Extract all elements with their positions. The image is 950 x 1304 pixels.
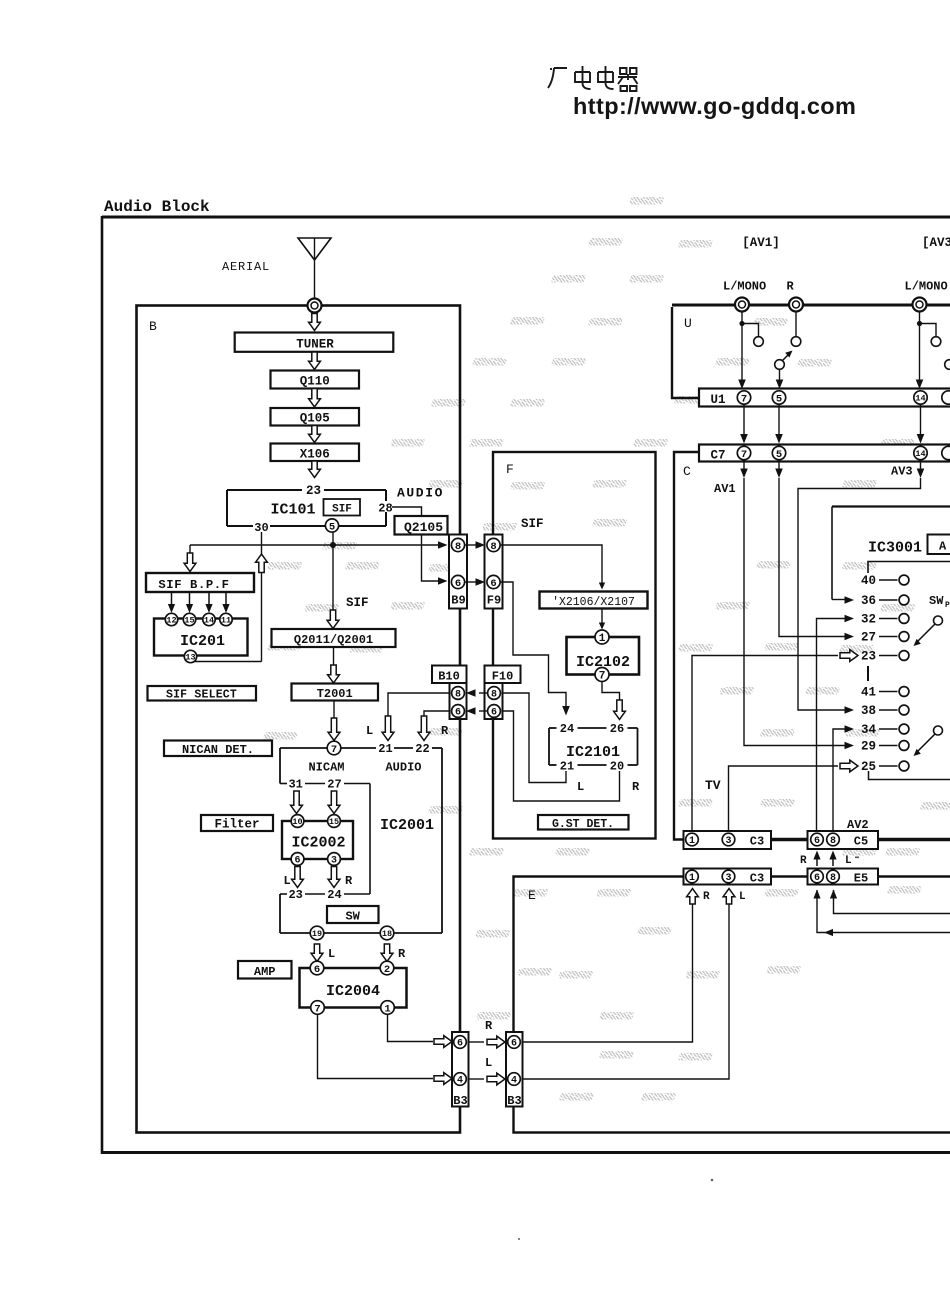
svg-text:1: 1: [599, 633, 606, 645]
svg-text:IC2101: IC2101: [566, 744, 620, 761]
svg-text:L: L: [739, 891, 746, 903]
arrows SIF BPF to IC201 pins: [171, 592, 173, 607]
connector F9: [485, 535, 503, 609]
pins 31 27 row: [280, 778, 370, 895]
svg-text:8: 8: [830, 873, 836, 884]
svg-text:C3: C3: [750, 835, 764, 849]
block A (cut): [928, 535, 950, 555]
arrow into T2001: [328, 665, 340, 683]
svg-text:7: 7: [314, 1003, 320, 1015]
svg-text:5: 5: [776, 393, 782, 405]
svg-text:C: C: [683, 464, 691, 479]
speck dot 1: [711, 1179, 714, 1182]
antenna AERIAL symbol: [298, 238, 331, 299]
wire U1 pin5 to C7 pin5: [778, 404, 780, 437]
wire below pin25: [869, 771, 950, 780]
svg-text:TUNER: TUNER: [296, 338, 334, 352]
arrow into SIF B.P.F: [184, 553, 196, 572]
svg-text:http://www.go-gddq.com: http://www.go-gddq.com: [573, 93, 856, 119]
svg-text:6: 6: [314, 964, 320, 976]
svg-text:L: L: [845, 855, 852, 867]
svg-text:Q2011/Q2001: Q2011/Q2001: [294, 633, 373, 647]
pin cut of C7: [942, 446, 950, 459]
svg-text:21: 21: [378, 742, 392, 756]
pin 3 of IC2002: [328, 853, 341, 867]
pin 15 of IC201: [183, 613, 195, 625]
connector E5: [808, 869, 879, 885]
speck near L: [855, 857, 859, 859]
wire IC2101 pin21 to F10 pin8: [501, 693, 566, 783]
IC IC2001 outline: [280, 748, 442, 933]
svg-text:B9: B9: [451, 594, 465, 608]
svg-text:AMP: AMP: [254, 965, 276, 979]
connector B3 (B side): [452, 1032, 469, 1107]
svg-text:4: 4: [457, 1076, 463, 1087]
svg-text:IC2004: IC2004: [326, 983, 380, 1000]
svg-text:23: 23: [288, 888, 302, 902]
svg-text:L/MONO: L/MONO: [723, 280, 766, 294]
svg-text:TV: TV: [705, 778, 721, 793]
block TUNER: [235, 333, 394, 352]
svg-text:8: 8: [490, 541, 496, 553]
svg-text:27: 27: [327, 778, 341, 792]
svg-text:8: 8: [830, 836, 836, 847]
svg-text:SW: SW: [929, 594, 944, 608]
jack AV1 L/MONO: [735, 298, 749, 312]
connector C3 (row1): [684, 831, 772, 849]
wire C5 pin6 to IC3001 pin32: [817, 619, 847, 834]
wire switch to U1 pin5: [779, 370, 781, 383]
svg-text:F: F: [506, 462, 514, 477]
IC IC101 outline: [227, 490, 386, 526]
hollow arrow into pin25: [840, 760, 858, 772]
pin 14 of C7: [914, 446, 927, 459]
IC IC2002 box: [282, 821, 353, 859]
svg-text:6: 6: [814, 836, 820, 847]
svg-text:21: 21: [560, 760, 574, 774]
svg-text:IC201: IC201: [180, 633, 225, 650]
block E boundary: [514, 877, 950, 1133]
svg-text:8: 8: [455, 690, 461, 701]
svg-text:B: B: [149, 319, 157, 334]
arrow up on pin30 wire: [256, 554, 268, 573]
svg-text:22: 22: [415, 742, 429, 756]
svg-text:8: 8: [491, 690, 497, 701]
svg-text:SIF: SIF: [332, 504, 352, 516]
speck dot 2: [518, 1238, 520, 1240]
wire F9 pin6 to IC2101 pin24: [500, 582, 566, 708]
wire AV3 to U1 pin14: [919, 312, 921, 383]
wire U1 pin7 to C7 pin7: [743, 404, 745, 437]
header Chinese text 广电电器 (stroke art): [548, 66, 638, 91]
svg-text:14: 14: [915, 394, 925, 404]
svg-text:6: 6: [814, 873, 820, 884]
arrow 27 to IC2002 pin 15: [328, 791, 340, 814]
svg-text:6: 6: [511, 1039, 517, 1050]
wire IC2102 pin7 to arrow: [602, 682, 620, 702]
svg-text:23: 23: [861, 650, 876, 664]
svg-text:U: U: [684, 316, 692, 331]
svg-text:Audio Block: Audio Block: [104, 198, 210, 216]
arrow IC2002 pin3 down: [328, 867, 340, 888]
svg-text:6: 6: [455, 578, 461, 590]
arrow F10 pin8 to B10 pin8: [479, 692, 488, 694]
pin 12 of IC201: [165, 613, 177, 625]
block SW: [327, 906, 379, 923]
wire U1 pin14 to C7 pin14: [920, 404, 922, 437]
block SIF inside IC101: [324, 499, 361, 516]
arrow B9 pin8 to F9 pin8: [465, 544, 478, 546]
block Q2011/Q2001: [272, 629, 396, 647]
wire B3 pin6 to C3 pin1: [523, 903, 693, 1042]
svg-text:27: 27: [861, 631, 876, 645]
pins 23 24 row: [280, 888, 370, 902]
block SIF SELECT: [148, 686, 257, 701]
svg-text:R: R: [398, 947, 406, 961]
wire T2001 down: [333, 701, 335, 720]
pin 6 of IC2004: [310, 961, 324, 976]
svg-text:U1: U1: [711, 393, 726, 407]
pin 2 of IC2004: [380, 961, 394, 976]
svg-text:AERIAL: AERIAL: [222, 260, 270, 274]
connector U1: [699, 389, 950, 407]
pin 5 of IC101: [325, 519, 338, 533]
svg-text:15: 15: [184, 616, 194, 626]
block Filter: [201, 815, 273, 831]
svg-text:R: R: [485, 1019, 493, 1033]
svg-text:13: 13: [185, 653, 195, 663]
wire Q2105 to B9 pin 6: [422, 535, 441, 582]
scan noise texture: [263, 197, 950, 1101]
outer border: [102, 216, 950, 1154]
svg-text:8: 8: [455, 541, 461, 553]
wire AV1-R jack stub: [795, 312, 797, 337]
wire E5 pin6 from right: [817, 890, 950, 933]
svg-text:11: 11: [221, 616, 231, 626]
arrow into pin36: [832, 599, 846, 601]
wire IC2101 pin20 to F10 pin6: [501, 711, 620, 801]
pin 7 of IC2004: [311, 1001, 325, 1016]
arrow into pin 21: [382, 716, 394, 741]
svg-text:1: 1: [689, 873, 695, 884]
svg-text:E: E: [528, 888, 536, 903]
arrow B3 to B3 pin4: [487, 1073, 505, 1085]
wire corner to SIF BPF arrow: [189, 545, 191, 556]
pin 15 of IC2002: [328, 815, 341, 828]
svg-text:7: 7: [331, 744, 337, 756]
svg-text:36: 36: [861, 594, 876, 608]
arrow B3 to B3 pin6: [487, 1036, 505, 1048]
switch SW1: [934, 616, 943, 625]
switch AV1: [775, 360, 785, 370]
svg-text:SW: SW: [345, 910, 360, 924]
pin 1 of IC2004: [381, 1001, 395, 1016]
svg-text:AV3: AV3: [891, 465, 913, 479]
pin 14 of U1: [914, 391, 927, 404]
wire IC101 pin28 to Q2105: [392, 507, 422, 515]
svg-text:C5: C5: [854, 835, 868, 849]
svg-text:R: R: [441, 724, 449, 738]
block Q2105: [395, 516, 448, 535]
svg-text:AUDIO: AUDIO: [397, 486, 444, 501]
svg-text:6: 6: [490, 578, 496, 590]
svg-text:29: 29: [861, 740, 876, 754]
svg-text:'X2106/X2107: 'X2106/X2107: [552, 596, 635, 609]
svg-text:AV2: AV2: [847, 818, 869, 832]
svg-text:4: 4: [511, 1076, 517, 1087]
svg-text:Q105: Q105: [300, 412, 330, 426]
wire C5 pin8 to IC3001 pin34: [833, 729, 846, 833]
svg-text:L: L: [485, 1056, 492, 1070]
svg-text:P: P: [945, 601, 950, 610]
svg-text:28: 28: [378, 502, 392, 516]
svg-text:AV1: AV1: [714, 482, 736, 496]
block T2001: [292, 684, 379, 701]
svg-text:6: 6: [491, 708, 497, 719]
svg-text:R: R: [632, 780, 640, 794]
wire IC201 pin13 loop: [190, 660, 262, 663]
pin 18 of IC2001: [380, 926, 394, 940]
pin 10 of IC2002: [291, 815, 304, 828]
arrow into pin 22: [418, 716, 430, 741]
jack AV3 L/MONO: [913, 298, 927, 312]
svg-text:IC3001: IC3001: [868, 540, 922, 557]
svg-text:L: L: [577, 780, 584, 794]
pin 7 of C7: [737, 446, 750, 460]
svg-text:31: 31: [288, 778, 302, 792]
wire B3 to B3 pin4 stub: [469, 1078, 484, 1080]
block X2106/X2107: [540, 592, 648, 609]
stub below pin23: [867, 666, 869, 681]
IC IC2101 outline: [549, 728, 638, 765]
hollow arrow into pin23: [840, 650, 858, 662]
svg-text:B3: B3: [507, 1094, 521, 1108]
svg-text:2: 2: [384, 964, 390, 976]
arrow pin18 to IC2004: [381, 944, 393, 962]
top bus line: [672, 304, 950, 307]
svg-text:AUDIO: AUDIO: [385, 761, 421, 775]
pin 6 of IC2002: [291, 853, 304, 867]
wire Q2011 to T2001: [333, 647, 335, 667]
svg-text:G.ST DET.: G.ST DET.: [552, 818, 614, 831]
wire AV1-L jack stub: [739, 321, 744, 326]
svg-text:L: L: [328, 947, 335, 961]
svg-text:15: 15: [329, 817, 339, 827]
arrow E5 pin8 to C5 pin8: [832, 858, 834, 866]
wire AV1-L to U1 pin7: [741, 312, 743, 383]
svg-text:34: 34: [861, 723, 877, 737]
svg-text:7: 7: [741, 449, 747, 461]
svg-text:T2001: T2001: [317, 687, 353, 701]
wire B10 pin6 to IC2001 pin22: [424, 711, 450, 717]
wire B3 to B3 pin6 stub: [469, 1041, 484, 1043]
pin 5 of U1: [772, 391, 785, 405]
arrow pin19 to IC2004: [311, 944, 323, 962]
svg-text:5: 5: [329, 521, 335, 533]
svg-text:R: R: [703, 891, 710, 903]
block Q105: [271, 408, 360, 426]
wire E5 pin8 from right: [834, 890, 950, 914]
arrow B9 pin6 to F9 pin6: [465, 581, 478, 583]
wire junction down to Q2011: [332, 545, 334, 612]
svg-text:R: R: [800, 855, 807, 867]
svg-text:6: 6: [455, 708, 461, 719]
svg-text:10: 10: [292, 817, 302, 827]
block SIF B.P.F: [146, 573, 254, 592]
wire IC2004 pin7 to B3 pin4: [318, 1014, 434, 1079]
pin 19 of IC2001: [310, 926, 324, 940]
svg-text:SIF: SIF: [346, 596, 369, 610]
svg-text:12: 12: [166, 616, 176, 626]
svg-text:6: 6: [294, 856, 300, 867]
svg-text:L: L: [284, 874, 291, 888]
svg-text:3: 3: [725, 873, 731, 884]
arrow 31 to IC2002 pin 10: [291, 791, 303, 814]
svg-text:20: 20: [610, 760, 624, 774]
block U boundary: [672, 307, 699, 398]
wire junction to B9 pin 8: [190, 544, 439, 546]
arrow Q110 to Q105: [309, 389, 321, 408]
arrow E5 pin6 to C5 pin6: [816, 858, 818, 866]
connector C7: [699, 445, 950, 462]
svg-text:3: 3: [725, 836, 731, 847]
arrow up into C3row2 pin1: [687, 889, 699, 905]
pin cut of U1: [942, 391, 950, 404]
svg-text:3: 3: [331, 856, 337, 867]
wire C7 pin7 to IC3001 pin29: [743, 460, 745, 471]
svg-text:26: 26: [610, 722, 624, 736]
IC IC3001 outline: [832, 505, 950, 507]
svg-text:E5: E5: [854, 872, 868, 886]
svg-text:L: L: [366, 724, 373, 738]
svg-text:38: 38: [861, 704, 876, 718]
arrow into Q2011: [327, 610, 339, 629]
arrow F10 pin6 to B10 pin6: [479, 710, 488, 712]
svg-text:[AV1]: [AV1]: [742, 236, 780, 250]
arrow into IC2001 pin 7: [328, 718, 340, 741]
wire C3 pin3 to IC3001 pin25: [729, 766, 839, 833]
svg-text:F9: F9: [487, 594, 501, 608]
pin 14 of IC201: [203, 613, 215, 625]
svg-text:SIF B.P.F: SIF B.P.F: [158, 578, 229, 592]
block NICAN DET.: [164, 741, 272, 757]
arrow into IC2101 pin 26: [614, 700, 626, 720]
block X106: [271, 444, 360, 462]
svg-text:IC101: IC101: [271, 502, 316, 519]
wire B10 pin8 to IC2001 pin21: [388, 693, 450, 717]
svg-text:SIF SELECT: SIF SELECT: [166, 689, 237, 702]
junction dot: [330, 542, 336, 548]
pin 13 of IC201: [184, 650, 196, 662]
svg-text:7: 7: [599, 670, 606, 682]
arrow TUNER to Q110: [309, 352, 321, 370]
svg-text:C3: C3: [750, 872, 764, 886]
wire C7 pin5 to IC3001 pin27: [778, 460, 780, 471]
svg-text:1: 1: [689, 836, 695, 847]
svg-text:L/MONO: L/MONO: [905, 280, 948, 294]
pin 7 of U1: [737, 391, 750, 405]
svg-text:IC2001: IC2001: [380, 817, 434, 834]
svg-text:41: 41: [861, 686, 876, 700]
switch AV3 (cut): [945, 360, 950, 370]
connector F10: [485, 666, 521, 720]
wire F9 pin8 to X2106: [500, 545, 602, 583]
IC IC2004 box: [300, 968, 407, 1008]
wire AV3 jack stub: [917, 321, 922, 326]
connector B10: [432, 666, 467, 720]
connector C5: [808, 831, 879, 849]
svg-text:Q2105: Q2105: [404, 520, 443, 535]
block C boundary: [674, 452, 699, 840]
svg-text:IC2002: IC2002: [291, 835, 345, 852]
IC IC2102 box: [567, 637, 640, 675]
arrow X106 to IC101 pin 23: [309, 461, 321, 478]
wire IC101 pin5 down to junction: [332, 532, 334, 545]
svg-text:NICAM: NICAM: [308, 761, 344, 775]
svg-text:B3: B3: [453, 1094, 467, 1108]
svg-text:14: 14: [915, 449, 925, 459]
svg-text:40: 40: [861, 574, 876, 588]
svg-text:X106: X106: [300, 448, 330, 462]
pin 7 of IC2102: [595, 668, 609, 683]
arrow Q105 to X106: [309, 426, 321, 443]
block B boundary: [137, 306, 461, 1133]
arrow aerial to TUNER: [309, 314, 321, 331]
svg-text:[AV3]: [AV3]: [922, 236, 950, 250]
wire X2106 to IC2102 pin1: [601, 609, 603, 625]
svg-text:18: 18: [382, 929, 392, 939]
svg-text:Q110: Q110: [300, 375, 330, 389]
svg-text:B10: B10: [438, 670, 460, 684]
pin 7 of IC2001: [327, 741, 341, 756]
svg-text:SIF: SIF: [521, 517, 544, 531]
arrow up into C3row2 pin3: [723, 889, 735, 905]
switch SW2: [934, 726, 943, 735]
block Q110: [271, 371, 360, 389]
pin 5 of C7: [772, 446, 785, 460]
jack AV1 R: [789, 298, 803, 312]
svg-text:5: 5: [776, 449, 782, 461]
wire C7 pin14 AV3 to IC3001 pin38: [920, 460, 922, 471]
svg-text:1: 1: [384, 1003, 390, 1015]
svg-text:Filter: Filter: [214, 818, 259, 832]
IC IC201 box: [154, 619, 248, 656]
arrow into B3 pin 4: [434, 1073, 452, 1085]
block G.ST DET.: [538, 815, 629, 830]
svg-text:R: R: [345, 874, 353, 888]
wire pin30 vertical: [261, 532, 263, 662]
svg-text:19: 19: [312, 929, 322, 939]
svg-text:NICAN DET.: NICAN DET.: [182, 743, 254, 757]
block AMP: [238, 961, 292, 979]
svg-text:23: 23: [306, 484, 321, 498]
svg-text:24: 24: [327, 888, 341, 902]
bracket pin40: [868, 562, 950, 574]
wire C3 pin1 to IC3001 pin23: [692, 656, 838, 834]
wire IC2004 pin1 to B3 pin6: [388, 1014, 434, 1042]
svg-text:24: 24: [560, 722, 574, 736]
aerial jack connector: [308, 299, 322, 313]
connector B9: [449, 535, 467, 609]
svg-text:A: A: [939, 540, 947, 554]
pin 11 of IC201: [220, 613, 232, 625]
svg-text:7: 7: [741, 393, 747, 405]
pin 1 of IC2102: [595, 630, 609, 645]
block F boundary: [493, 452, 656, 839]
connector C3 (row2): [684, 869, 772, 885]
arrow into B3 pin 6: [434, 1036, 452, 1048]
svg-text:32: 32: [861, 613, 876, 627]
